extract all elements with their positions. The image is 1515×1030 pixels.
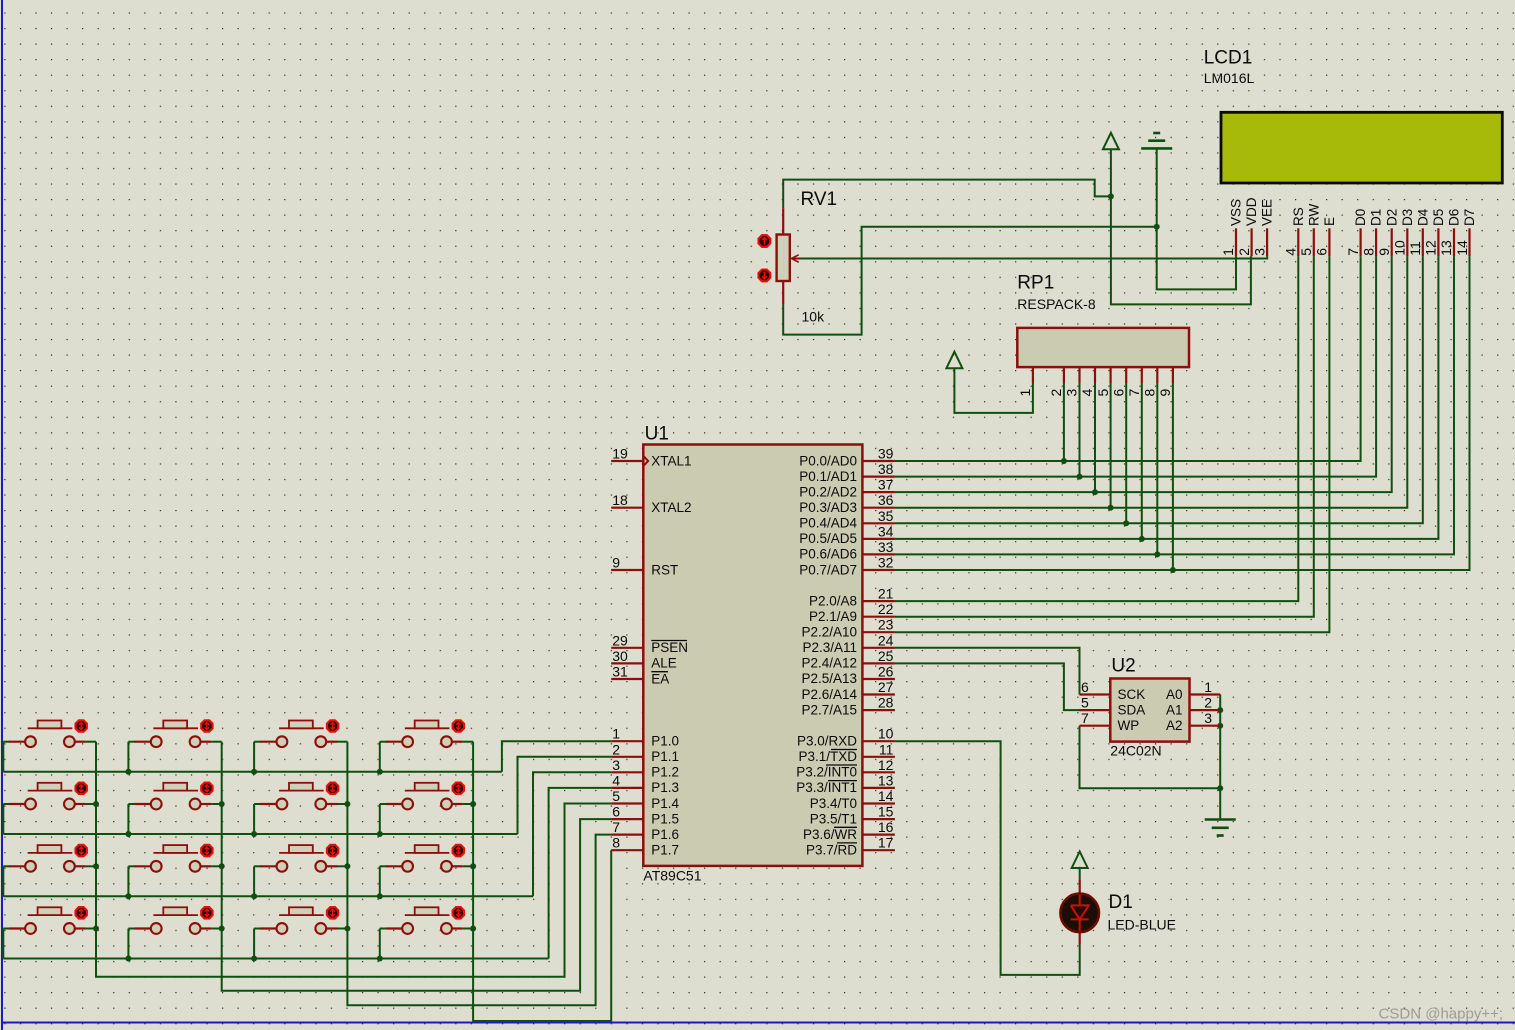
wire key r3c3 right (337, 865, 347, 867)
junction keypad bus 1 col 3 (251, 769, 257, 775)
svg-text:U1: U1 (645, 424, 669, 445)
RP1 pin 3 (1078, 367, 1080, 383)
svg-text:5: 5 (1081, 695, 1089, 711)
svg-text:2: 2 (1204, 695, 1212, 711)
U1 pin 18 XTAL2 (611, 507, 643, 509)
LCD1 pin 14 D7 (1468, 228, 1470, 256)
U1 pin 13 P3.3/INT1 (862, 787, 895, 789)
wire P0.6 to LCD D6 (895, 256, 1454, 554)
svg-text:D5: D5 (1431, 209, 1446, 226)
push button SW r3c3 (260, 865, 276, 867)
wire key r4c1 left drop (2, 929, 4, 959)
svg-text:2: 2 (612, 741, 620, 757)
U1 pin 19 XTAL1 (611, 460, 643, 462)
svg-text:P1.5: P1.5 (651, 811, 679, 826)
svg-text:8: 8 (612, 835, 620, 851)
svg-text:D0: D0 (1353, 209, 1368, 226)
svg-text:32: 32 (878, 555, 894, 571)
push button SW r4c2 (135, 927, 151, 929)
svg-text:P1.2: P1.2 (651, 765, 679, 780)
wire key r3c2 left drop (127, 866, 129, 896)
wire RP1 pin2 to P0.0 bus (1063, 383, 1065, 461)
junction keypad bus 4 col 2 (125, 956, 131, 962)
svg-text:P1.4: P1.4 (651, 796, 679, 811)
svg-text:17: 17 (878, 835, 894, 851)
svg-text:PSEN: PSEN (651, 640, 688, 655)
LCD1 pin 6 E (1328, 228, 1330, 256)
wire key r4c3 left drop (253, 929, 255, 959)
junction keypad column 3 row 2 (344, 801, 350, 807)
microcontroller U1 body (AT89C51) (643, 445, 862, 866)
RP1 pin 5 (1109, 367, 1111, 383)
svg-text:P0.6/AD6: P0.6/AD6 (799, 547, 857, 562)
svg-text:P0.7/AD7: P0.7/AD7 (799, 562, 857, 577)
LCD1 pin 11 D4 (1422, 228, 1424, 256)
junction RP1 pin7 / P0.5 (1139, 536, 1145, 542)
junction keypad column 4 row 4 (470, 926, 476, 932)
svg-text:7: 7 (1345, 248, 1361, 256)
U1 pin 15 P3.5/T1 (862, 818, 895, 820)
svg-text:2: 2 (1236, 248, 1252, 256)
wire key r4c2 right (211, 928, 221, 930)
svg-text:P1.6: P1.6 (651, 827, 679, 842)
svg-text:AT89C51: AT89C51 (643, 868, 701, 884)
wire key r1c3 right (337, 741, 347, 743)
LCD1 pin 2 VDD (1250, 228, 1252, 256)
push button SW r3c1 (9, 865, 25, 867)
push button SW r1c2 (135, 741, 151, 743)
svg-text:P3.5/T1: P3.5/T1 (810, 811, 857, 826)
svg-text:P2.5/A13: P2.5/A13 (801, 671, 857, 686)
svg-text:P2.1/A9: P2.1/A9 (809, 609, 857, 624)
push button SW r4c1 (9, 927, 25, 929)
svg-text:LED-BLUE: LED-BLUE (1108, 917, 1176, 933)
svg-text:12: 12 (878, 757, 894, 773)
svg-text:29: 29 (612, 632, 628, 648)
junction RP1 pin2 / P0.0 (1061, 458, 1067, 464)
wire key r4c3 left (254, 928, 261, 930)
LCD1 pin 7 D0 (1359, 228, 1361, 256)
svg-text:VDD: VDD (1244, 197, 1259, 226)
svg-text:28: 28 (878, 695, 894, 711)
svg-text:36: 36 (878, 492, 894, 508)
wire keypad row 3 bus (3, 895, 533, 897)
svg-text:13: 13 (878, 772, 894, 788)
svg-text:XTAL2: XTAL2 (651, 500, 691, 515)
wire key r4c4 left drop (379, 929, 381, 959)
wire key r4c4 right (463, 928, 473, 930)
ground at U2 (1205, 818, 1236, 821)
wire key r1c2 right (211, 741, 221, 743)
RP1 pin 1 (1032, 367, 1034, 383)
svg-text:P1.1: P1.1 (651, 749, 679, 764)
svg-text:U2: U2 (1111, 656, 1135, 677)
wire key col 1 top-left drop (2, 742, 4, 772)
RV1 wiper arrow (791, 255, 800, 262)
wire key r4c3 right (337, 928, 347, 930)
junction keypad bus 2 col 4 (377, 831, 383, 837)
U1 pin 24 P2.3/A11 (862, 647, 895, 649)
svg-text:23: 23 (878, 617, 894, 633)
LCD1 pin 3 VEE (1266, 228, 1268, 256)
wire P0.2 to LCD D2 (895, 256, 1392, 492)
svg-text:D1: D1 (1109, 892, 1133, 913)
svg-text:E: E (1322, 217, 1337, 226)
push button SW r2c2 (135, 803, 151, 805)
wire keypad row 1 bus (3, 771, 502, 773)
sheet border bottom (2, 1022, 1515, 1024)
svg-text:22: 22 (878, 601, 894, 617)
LCD1 pin 1 VSS (1235, 228, 1237, 256)
U1 pin 38 P0.1/AD1 (862, 476, 895, 478)
junction keypad bus 4 col 4 (377, 956, 383, 962)
wire key r2c2 left drop (127, 804, 129, 834)
wire ground rail to LCD VSS (1157, 148, 1236, 289)
svg-text:A2: A2 (1166, 718, 1183, 733)
wire P2.2 to LCD pin 6 (895, 256, 1330, 632)
junction keypad column 3 row 3 (344, 863, 350, 869)
LCD1 display body (LM016L) (1221, 112, 1502, 183)
U2 pin 5 SDA (1080, 709, 1111, 711)
svg-text:LM016L: LM016L (1204, 70, 1255, 86)
svg-text:4: 4 (612, 772, 620, 788)
RP1 pin 4 (1094, 367, 1096, 383)
U1 pin 37 P0.2/AD2 (862, 491, 895, 493)
junction RP1 pin9 / P0.7 (1170, 567, 1176, 573)
push button SW r1c3 (260, 741, 276, 743)
svg-text:4: 4 (1283, 248, 1299, 256)
U1 pin 32 P0.7/AD7 (862, 569, 895, 571)
wire keypad row 1 to P1.0 (502, 741, 611, 772)
power +5V at D1 (1072, 852, 1088, 869)
svg-text:P1.7: P1.7 (651, 843, 679, 858)
LCD1 pin 8 D1 (1375, 228, 1377, 256)
wire VCC rail to LCD VDD (1111, 149, 1251, 304)
U1 pin 16 P3.6/WR (862, 833, 895, 835)
wire key r3c3 left (254, 865, 261, 867)
wire RV1 wiper to LCD VEE (792, 256, 1268, 258)
junction VCC rail / RV1 top (1108, 193, 1114, 199)
wire key r4c4 left (380, 928, 387, 930)
svg-text:37: 37 (878, 477, 894, 493)
wire RP1 pin9 to P0.7 bus (1172, 383, 1174, 570)
push button SW r3c2 (135, 865, 151, 867)
push button SW r4c3 (260, 927, 276, 929)
svg-text:6: 6 (1110, 389, 1126, 397)
U1 pin 22 P2.1/A9 (862, 616, 895, 618)
wire key r3c4 right (463, 865, 473, 867)
U1 pin 5 P1.4 (611, 802, 643, 804)
RV1 decrement button (759, 270, 771, 282)
wire U2 A0-A2 to ground (1219, 695, 1221, 819)
svg-text:A1: A1 (1166, 702, 1183, 717)
push button SW r1c4 (386, 741, 402, 743)
svg-text:8: 8 (1142, 389, 1158, 397)
U2 pin 1 A0 (1190, 693, 1221, 695)
svg-text:21: 21 (878, 586, 894, 602)
RP1 pin 2 (1063, 367, 1065, 383)
wire keypad column 2 to P1.5 (222, 742, 612, 991)
U1 pin 9 RST (611, 569, 643, 571)
wire key col 3 top-left drop (253, 742, 255, 772)
svg-text:9: 9 (612, 555, 620, 571)
svg-text:WP: WP (1118, 718, 1140, 733)
power +5V at RP1 pin1 (946, 352, 962, 369)
LCD1 pin 10 D3 (1406, 228, 1408, 256)
resistor pack RP1 body (RESPACK-8) (1017, 328, 1189, 367)
wire key r3c1 left (3, 865, 10, 867)
wire key r1c1 left (3, 741, 10, 743)
svg-text:ALE: ALE (651, 656, 677, 671)
junction keypad column 1 row 4 (93, 926, 99, 932)
wire RP1 pin3 to P0.1 bus (1079, 383, 1081, 477)
svg-text:LCD1: LCD1 (1204, 48, 1253, 69)
svg-text:P3.1/TXD: P3.1/TXD (798, 749, 857, 764)
push button SW r4c4 (386, 927, 402, 929)
junction RP1 pin4 / P0.2 (1092, 489, 1098, 495)
svg-text:10: 10 (1392, 240, 1408, 256)
U1 pin 28 P2.7/A15 (862, 709, 895, 711)
junction RP1 pin6 / P0.4 (1123, 520, 1129, 526)
svg-text:P0.2/AD2: P0.2/AD2 (799, 484, 857, 499)
U1 pin 3 P1.2 (611, 771, 643, 773)
svg-text:P2.6/A14: P2.6/A14 (801, 687, 857, 702)
junction keypad column 3 row 4 (344, 926, 350, 932)
junction keypad bus 1 col 4 (377, 769, 383, 775)
U1 pin 1 P1.0 (611, 740, 643, 742)
svg-text:3: 3 (1064, 389, 1080, 397)
junction RP1 pin8 / P0.6 (1154, 551, 1160, 557)
svg-text:D3: D3 (1400, 209, 1415, 226)
svg-text:33: 33 (878, 539, 894, 555)
wire keypad row 4 bus (3, 958, 548, 960)
svg-text:11: 11 (879, 741, 894, 757)
wire RP1 pin1 to VCC arrow (954, 368, 1033, 413)
U1 pin 23 P2.2/A10 (862, 631, 895, 633)
junction keypad bus 1 col 2 (125, 769, 131, 775)
U1 pin 7 P1.6 (611, 833, 643, 835)
wire key r1c2 left (128, 741, 135, 743)
U1 pin 10 P3.0/RXD (862, 740, 895, 742)
U2 pin 6 SCK (1080, 693, 1111, 695)
U1 pin 35 P0.4/AD4 (862, 522, 895, 524)
junction keypad bus 2 col 3 (251, 831, 257, 837)
wire key r2c2 right (211, 803, 221, 805)
junction U2 A2 / ground net (1217, 723, 1223, 729)
junction keypad bus 3 col 3 (251, 893, 257, 899)
svg-text:VEE: VEE (1260, 199, 1275, 226)
svg-text:7: 7 (1126, 389, 1142, 397)
junction keypad column 2 row 4 (219, 926, 225, 932)
svg-text:3: 3 (1204, 710, 1212, 726)
svg-text:39: 39 (878, 446, 894, 462)
svg-text:RESPACK-8: RESPACK-8 (1017, 296, 1096, 312)
wire key r1c1 right (86, 741, 96, 743)
push button SW r1c1 (9, 741, 25, 743)
wire keypad row 3 to P1.2 (533, 772, 611, 896)
svg-text:10k: 10k (802, 309, 826, 325)
RP1 pin 7 (1141, 367, 1143, 383)
junction keypad column 1 row 2 (93, 801, 99, 807)
wire P0.0 to LCD D0 (895, 256, 1361, 461)
junction U2 WP / ground net (1217, 785, 1223, 791)
U1 pin 14 P3.4/T0 (862, 802, 895, 804)
svg-text:P0.0/AD0: P0.0/AD0 (799, 453, 857, 468)
U1 pin 4 P1.3 (611, 787, 643, 789)
svg-text:P3.0/RXD: P3.0/RXD (797, 734, 857, 749)
LCD1 pin 12 D5 (1437, 228, 1439, 256)
U1 pin 36 P0.3/AD3 (862, 507, 895, 509)
U1 pin 34 P0.5/AD5 (862, 538, 895, 540)
junction keypad column 4 row 3 (470, 863, 476, 869)
svg-text:P0.5/AD5: P0.5/AD5 (799, 531, 857, 546)
wire key r2c1 right (86, 803, 96, 805)
svg-text:P2.7/A15: P2.7/A15 (801, 702, 857, 717)
U2 pin 2 A1 (1190, 709, 1221, 711)
push button SW r2c1 (9, 803, 25, 805)
junction ground rail / RV1 bottom (1154, 224, 1160, 230)
wire RV1 bottom to ground rail (783, 227, 1156, 335)
wire key r2c1 left drop (2, 804, 4, 834)
junction RP1 pin3 / P0.1 (1077, 474, 1083, 480)
svg-text:15: 15 (878, 804, 894, 820)
svg-text:11: 11 (1407, 241, 1423, 256)
svg-text:D2: D2 (1384, 209, 1399, 226)
U1 pin 26 P2.5/A13 (862, 678, 895, 680)
U2 pin 7 WP (1080, 725, 1111, 727)
wire RP1 pin7 to P0.5 bus (1141, 383, 1143, 539)
wire U2 WP to ground net (1080, 726, 1221, 789)
wire key r3c4 left (380, 865, 387, 867)
junction keypad column 1 row 3 (93, 863, 99, 869)
wire key r1c3 left (254, 741, 261, 743)
svg-text:30: 30 (612, 648, 628, 664)
svg-text:P3.7/RD: P3.7/RD (806, 843, 857, 858)
svg-text:6: 6 (1081, 679, 1089, 695)
wire key r3c2 left (128, 865, 135, 867)
junction keypad bus 2 col 2 (125, 831, 131, 837)
wire P2.0 to LCD pin 4 (895, 256, 1298, 601)
U1 XTAL1 clock marker (644, 456, 649, 466)
svg-text:7: 7 (1081, 710, 1089, 726)
svg-text:P3.2/INT0: P3.2/INT0 (796, 765, 857, 780)
wire key r2c4 left drop (379, 804, 381, 834)
wire RP1 pin4 to P0.2 bus (1094, 383, 1096, 492)
junction keypad column 2 row 3 (219, 863, 225, 869)
svg-text:38: 38 (878, 461, 894, 477)
wire P0.5 to LCD D5 (895, 256, 1439, 539)
wire RP1 pin6 to P0.4 bus (1125, 383, 1127, 523)
svg-text:8: 8 (1360, 248, 1376, 256)
RP1 pin 9 (1172, 367, 1174, 383)
wire P3.0 to D1 cathode (895, 741, 1080, 975)
wire key r4c1 left (3, 928, 10, 930)
svg-text:P2.0/A8: P2.0/A8 (809, 593, 857, 608)
svg-text:D1: D1 (1369, 209, 1384, 226)
push button SW r2c3 (260, 803, 276, 805)
wire keypad column 3 to P1.6 (347, 742, 611, 1006)
svg-text:4: 4 (1079, 389, 1095, 397)
svg-text:EA: EA (651, 671, 669, 686)
svg-text:5: 5 (1298, 248, 1314, 256)
U1 pin 29 PSEN (611, 647, 643, 649)
U1 pin 31 EA (611, 678, 643, 680)
svg-text:P1.3: P1.3 (651, 780, 679, 795)
svg-text:24: 24 (878, 632, 894, 648)
svg-text:P2.2/A10: P2.2/A10 (801, 625, 857, 640)
wire VCC arrow to D1 anode (1079, 867, 1081, 880)
svg-text:1: 1 (1220, 248, 1236, 256)
U1 pin 30 ALE (611, 662, 643, 664)
wire key r4c2 left (128, 928, 135, 930)
svg-text:P0.4/AD4: P0.4/AD4 (799, 516, 857, 531)
svg-text:P3.3/INT1: P3.3/INT1 (796, 780, 857, 795)
wire key r4c2 left drop (127, 929, 129, 959)
svg-text:1: 1 (612, 726, 620, 742)
wire P0.7 to LCD D7 (895, 256, 1470, 570)
U2 pin 3 A2 (1190, 725, 1221, 727)
push button SW r2c4 (386, 803, 402, 805)
svg-text:3: 3 (1251, 248, 1267, 256)
U1 pin 27 P2.6/A14 (862, 693, 895, 695)
svg-text:SDA: SDA (1118, 702, 1146, 717)
wire key r2c4 left (380, 803, 387, 805)
wire keypad row 2 bus (3, 833, 517, 835)
wire keypad column 4 to P1.7 (473, 742, 611, 1021)
junction keypad bus 3 col 2 (125, 893, 131, 899)
svg-text:6: 6 (1314, 248, 1330, 256)
junction keypad bus 4 col 3 (251, 956, 257, 962)
svg-text:25: 25 (878, 648, 894, 664)
svg-text:XTAL1: XTAL1 (651, 453, 691, 468)
svg-text:31: 31 (612, 664, 628, 680)
push button SW r3c4 (386, 865, 402, 867)
U1 pin 17 P3.7/RD (862, 849, 895, 851)
wire key r2c3 left (254, 803, 261, 805)
svg-text:RST: RST (651, 562, 678, 577)
svg-text:3: 3 (612, 757, 620, 773)
wire P0.1 to LCD D1 (895, 256, 1376, 476)
wire key r1c4 right (463, 741, 473, 743)
svg-text:5: 5 (612, 788, 620, 804)
svg-text:13: 13 (1438, 240, 1454, 256)
RP1 pin 8 (1156, 367, 1158, 383)
LCD1 pin 9 D2 (1391, 228, 1393, 256)
wire keypad row 2 to P1.1 (518, 757, 612, 834)
junction keypad column 4 row 2 (470, 801, 476, 807)
U1 pin 8 P1.7 (611, 849, 643, 851)
wire key r3c1 left drop (2, 866, 4, 896)
svg-text:5: 5 (1095, 389, 1111, 397)
U1 pin 25 P2.4/A12 (862, 662, 895, 664)
wire P2.4 to U2 SDA (895, 663, 1080, 710)
wire key r3c2 right (211, 865, 221, 867)
RP1 pin 6 (1125, 367, 1127, 383)
U1 pin 33 P0.6/AD6 (862, 553, 895, 555)
svg-text:RS: RS (1291, 207, 1306, 226)
svg-text:18: 18 (612, 492, 628, 508)
wire P2.3 to U2 SCK (895, 648, 1080, 695)
wire key r2c2 left (128, 803, 135, 805)
wire key r3c4 left drop (379, 866, 381, 896)
svg-text:P0.3/AD3: P0.3/AD3 (799, 500, 857, 515)
svg-text:A0: A0 (1166, 687, 1183, 702)
U1 pin 39 P0.0/AD0 (862, 460, 895, 462)
svg-text:26: 26 (878, 664, 894, 680)
svg-text:12: 12 (1423, 240, 1439, 256)
svg-text:RP1: RP1 (1017, 273, 1054, 294)
wire key r2c1 left (3, 803, 10, 805)
